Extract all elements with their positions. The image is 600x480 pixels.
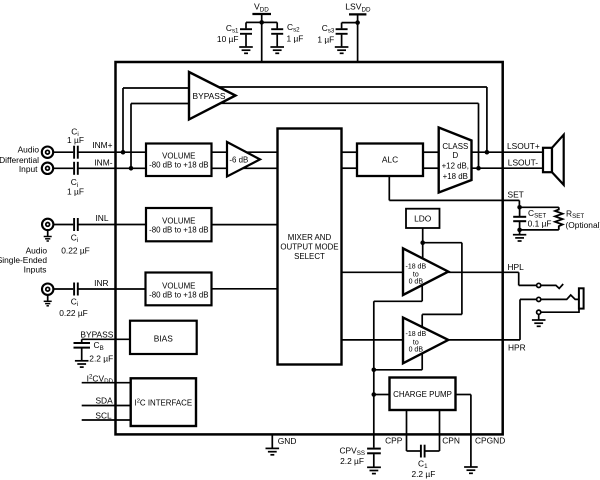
svg-text:INM-: INM-: [94, 157, 112, 167]
svg-text:CLASS: CLASS: [442, 142, 468, 151]
ground CB: [75, 361, 89, 367]
svg-text:0 dB: 0 dB: [409, 279, 424, 286]
svg-text:LSOUT-: LSOUT-: [508, 158, 538, 168]
svg-text:1 µF: 1 µF: [67, 135, 84, 145]
svg-text:CPN: CPN: [442, 435, 460, 445]
capacitor C1: [407, 445, 440, 458]
wire GND pin: [271, 435, 273, 449]
svg-text:+18 dB: +18 dB: [443, 172, 468, 181]
svg-text:1 µF: 1 µF: [287, 33, 304, 43]
ground Cs1: [239, 47, 253, 53]
wire INM-: [53, 167, 73, 169]
ground INR connector: [44, 301, 52, 306]
label VOLUME 1: [149, 151, 208, 169]
wire mixer to ALC bottom: [342, 167, 358, 169]
wire SET from ALC: [389, 176, 519, 207]
headphone jack HPR contact: [537, 295, 579, 302]
node LSOUT- junction: [476, 166, 481, 171]
label HPR amp gain: [405, 331, 426, 353]
wire LSOUT+: [472, 151, 544, 153]
node LSOUT+ junction: [485, 150, 490, 155]
svg-text:I2C INTERFACE: I2C INTERFACE: [134, 399, 192, 408]
connector audio INR: [42, 284, 53, 302]
charge pump box: [390, 378, 456, 411]
capacitor CPVSS: [367, 449, 381, 467]
capacitor CSET: [513, 207, 526, 234]
svg-text:2.2 µF: 2.2 µF: [89, 353, 113, 363]
svg-text:Audio: Audio: [18, 145, 40, 155]
svg-text:INM+: INM+: [92, 140, 112, 150]
wire HPL amp lower input: [374, 284, 422, 301]
svg-text:(Optional): (Optional): [566, 220, 600, 230]
label HPL amp gain: [405, 263, 426, 285]
LDO box: [406, 209, 440, 228]
mixer box: [278, 129, 342, 365]
label Audio Single-Ended Inputs: [0, 246, 47, 275]
wire CPN: [439, 410, 441, 451]
wire volume2 to mixer: [212, 224, 278, 226]
capacitor Ci INL: [74, 218, 78, 231]
wire SET to RSET top: [520, 206, 559, 208]
svg-text:VOLUME: VOLUME: [162, 151, 195, 160]
resistor RSET: [555, 207, 563, 230]
wire mixer to ALC top: [342, 151, 358, 153]
wire LSVDD rail: [349, 14, 366, 62]
node INM- junction: [129, 166, 134, 171]
svg-text:SELECT: SELECT: [294, 252, 325, 261]
svg-text:D: D: [452, 151, 458, 160]
connector audio INL: [42, 219, 53, 237]
op-amp HPL: [403, 248, 448, 295]
svg-text:SDA: SDA: [95, 396, 113, 406]
svg-text:0.1 µF: 0.1 µF: [528, 219, 552, 229]
volume block INR VOLUME: [146, 273, 212, 306]
wire SDA pin: [82, 405, 131, 407]
svg-text:0 dB: 0 dB: [409, 346, 424, 353]
svg-text:CPP: CPP: [385, 435, 403, 445]
ground GND: [266, 448, 280, 454]
svg-text:-80 dB to +18 dB: -80 dB to +18 dB: [149, 160, 208, 169]
svg-text:0.22 µF: 0.22 µF: [61, 246, 90, 256]
svg-text:MIXER AND: MIXER AND: [288, 233, 332, 242]
ground Cs2: [270, 47, 284, 53]
svg-text:CHARGE PUMP: CHARGE PUMP: [393, 390, 452, 399]
speaker: [543, 135, 564, 185]
svg-text:BIAS: BIAS: [154, 333, 173, 343]
headphone jack HPL contact: [537, 283, 564, 288]
wire HPL output: [448, 272, 537, 285]
wire bypass output top: [210, 87, 487, 152]
svg-text:SET: SET: [508, 189, 524, 199]
node LDO junction: [420, 240, 425, 245]
connector audio differential minus: [42, 163, 53, 174]
wire bypass output bottom: [212, 103, 479, 168]
node INM+ junction: [121, 150, 126, 155]
svg-text:0.22 µF: 0.22 µF: [59, 308, 88, 318]
connector audio differential plus: [42, 147, 53, 158]
svg-text:-18 dB: -18 dB: [405, 263, 426, 270]
label MIXER AND OUTPUT MODE SELECT: [280, 233, 338, 261]
svg-text:2.2 µF: 2.2 µF: [340, 456, 364, 466]
svg-text:Audio: Audio: [26, 246, 48, 256]
node SET junction top: [517, 205, 522, 210]
wire LDO to amps: [422, 228, 462, 330]
bias box: [130, 321, 197, 354]
svg-text:SCL: SCL: [95, 411, 112, 421]
svg-text:GND: GND: [278, 436, 297, 446]
svg-text:+12 dB,: +12 dB,: [442, 162, 469, 171]
class D amp: [439, 128, 472, 193]
wire HPR output: [448, 299, 537, 340]
wire HPR amp lower input: [374, 352, 422, 370]
wire mixer to HPR amp: [342, 339, 404, 341]
wire charge pump CPGND: [456, 395, 471, 467]
svg-text:1 µF: 1 µF: [67, 187, 84, 197]
svg-text:-80 dB to +18 dB: -80 dB to +18 dB: [149, 290, 208, 299]
wire charge pump input: [374, 394, 390, 396]
label VOLUME 2: [149, 217, 208, 235]
svg-text:Inputs: Inputs: [24, 264, 47, 274]
node LSVDD junction: [355, 20, 360, 25]
svg-text:BYPASS: BYPASS: [193, 91, 226, 101]
i2c interface box: [131, 378, 196, 426]
svg-text:LSOUT+: LSOUT+: [507, 141, 540, 151]
wire bypass input top: [123, 88, 189, 152]
ground INL connector: [44, 237, 52, 242]
wire mixer to HPL amp: [342, 271, 404, 273]
wire volume1 to -6dB top: [212, 151, 278, 153]
wire I2CVDD pin: [82, 382, 131, 384]
svg-text:10 µF: 10 µF: [217, 34, 239, 44]
label VOLUME 3: [149, 281, 208, 299]
wire SCL pin: [82, 419, 131, 421]
wire CPVSS rail: [373, 301, 375, 447]
capacitor Ci INM-: [74, 162, 78, 175]
wire INL: [54, 224, 74, 226]
node SET junction bottom: [517, 228, 522, 233]
ground Cs3: [335, 47, 349, 53]
svg-text:Input: Input: [19, 164, 38, 174]
wire INM+ to volume: [79, 151, 147, 153]
svg-text:HPR: HPR: [508, 343, 526, 353]
wire INR to volume: [79, 288, 146, 290]
node VDD junction: [259, 20, 264, 25]
wire RSET bottom: [520, 229, 559, 231]
wire BYPASS pin: [82, 338, 130, 340]
wire INM- to volume: [79, 167, 147, 169]
headphone jack sleeve contact: [537, 309, 579, 320]
svg-text:-80 dB to +18 dB: -80 dB to +18 dB: [149, 226, 208, 235]
capacitor CB: [74, 339, 91, 360]
ground headphone jack: [532, 320, 546, 326]
svg-text:1 µF: 1 µF: [317, 34, 334, 44]
ground CSET: [513, 235, 526, 241]
svg-text:VOLUME: VOLUME: [162, 281, 195, 290]
wire bypass input bottom: [131, 104, 189, 169]
label Audio Differential Input: [0, 145, 39, 174]
wire INM+: [53, 151, 73, 153]
main IC box: [116, 62, 503, 434]
svg-text:INL: INL: [95, 213, 108, 223]
wire CPP: [406, 410, 408, 451]
node CPVSS junction lower: [372, 392, 377, 397]
wire INL to volume: [79, 224, 147, 226]
svg-text:2.2 µF: 2.2 µF: [411, 469, 435, 479]
wire volume3 to mixer: [212, 288, 278, 290]
svg-text:CPGND: CPGND: [475, 436, 505, 446]
svg-text:OUTPUT MODE: OUTPUT MODE: [280, 243, 338, 252]
svg-text:-18 dB: -18 dB: [405, 331, 426, 338]
capacitor Ci INM+: [74, 146, 78, 159]
ground CPGND: [464, 467, 478, 473]
svg-text:HPL: HPL: [508, 262, 525, 272]
ground CPVSS: [367, 467, 381, 473]
svg-text:BYPASS: BYPASS: [80, 329, 113, 339]
node CPVSS junction upper: [372, 368, 377, 373]
capacitor Cs2: [262, 22, 284, 46]
svg-text:VOLUME: VOLUME: [162, 217, 195, 226]
capacitor Cs3: [336, 23, 358, 47]
wire VDD rail: [252, 14, 271, 62]
wire ALC to class D top: [423, 151, 439, 153]
svg-text:INR: INR: [94, 278, 108, 288]
svg-text:ALC: ALC: [382, 155, 398, 165]
wire LSOUT-: [472, 167, 544, 169]
volume block INL VOLUME: [146, 208, 212, 241]
svg-text:-6 dB: -6 dB: [229, 155, 248, 164]
volume block INM VOLUME: [146, 144, 212, 177]
wire ALC to class D bottom: [423, 167, 439, 169]
ALC box: [357, 144, 423, 177]
label CLASS D gains: [442, 142, 469, 181]
op-amp -6dB: [227, 142, 260, 177]
wire volume1 to -6dB bottom: [212, 167, 278, 169]
svg-text:LDO: LDO: [414, 214, 432, 224]
op-amp BYPASS: [189, 72, 236, 119]
wire INR: [54, 288, 74, 290]
op-amp HPR: [403, 318, 448, 364]
headphone jack plug: [579, 288, 584, 308]
capacitor Cs1: [240, 22, 262, 46]
capacitor Ci INR: [74, 283, 78, 296]
